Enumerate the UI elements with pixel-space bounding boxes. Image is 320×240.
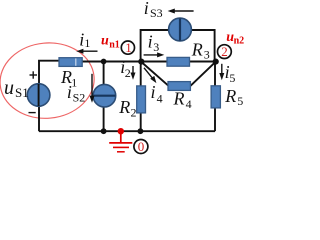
svg-text:i: i: [144, 0, 149, 18]
svg-text:R: R: [191, 39, 203, 59]
svg-text:2: 2: [221, 44, 228, 59]
svg-text:R: R: [60, 67, 72, 87]
svg-text:S3: S3: [150, 6, 163, 20]
svg-text:3: 3: [153, 40, 159, 54]
svg-text:5: 5: [237, 94, 243, 108]
svg-text:2: 2: [131, 106, 137, 120]
svg-text:n2: n2: [234, 36, 245, 47]
svg-text:n1: n1: [109, 39, 120, 50]
svg-text:1: 1: [71, 75, 77, 89]
svg-text:i: i: [148, 31, 153, 51]
svg-text:3: 3: [204, 47, 210, 61]
svg-text:4: 4: [157, 92, 163, 106]
svg-text:u: u: [4, 77, 14, 99]
svg-text:2: 2: [125, 66, 131, 80]
svg-text:5: 5: [229, 71, 235, 85]
svg-text:u: u: [101, 33, 109, 48]
svg-text:i: i: [151, 82, 156, 102]
svg-text:R: R: [224, 86, 236, 106]
svg-text:4: 4: [186, 97, 192, 111]
svg-text:S1: S1: [15, 85, 29, 100]
svg-text:R: R: [118, 97, 130, 117]
svg-text:0: 0: [138, 139, 145, 154]
svg-text:R: R: [173, 89, 185, 109]
svg-text:S2: S2: [73, 90, 86, 104]
svg-text:1: 1: [125, 40, 132, 55]
svg-text:1: 1: [84, 36, 90, 50]
